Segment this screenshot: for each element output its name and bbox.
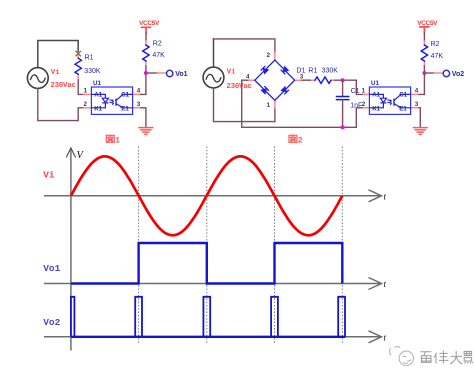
svg-text:47K: 47K: [431, 53, 444, 60]
photo arrows: [387, 100, 391, 105]
vertical axis V: [70, 148, 72, 351]
wire top rail to bridge pin2: [214, 39, 275, 52]
axis t2 (Vo1): [44, 278, 382, 290]
svg-text:Vo2: Vo2: [452, 71, 464, 78]
wire node to pin4: [141, 73, 146, 94]
Vo2 pulse 2: [203, 297, 210, 337]
axis t1 (Vi): [44, 190, 382, 202]
WAVEFORMS: [43, 147, 386, 351]
svg-text:R1: R1: [85, 54, 94, 61]
Vo2 pulse 1: [135, 297, 142, 337]
diode top-right: [281, 67, 288, 74]
wire R2 to node: [423, 66, 425, 73]
power bar symbol: [142, 27, 151, 33]
opto box: [369, 87, 410, 114]
svg-text:Vi: Vi: [51, 69, 61, 77]
svg-text:R1: R1: [308, 68, 317, 75]
LED diode: [380, 98, 386, 103]
wire R2 to node: [145, 66, 147, 73]
dashed gridline 2: [206, 147, 208, 345]
Vo2 baseline: [71, 336, 346, 338]
svg-text:Vo1: Vo1: [43, 263, 60, 274]
svg-text:4: 4: [415, 88, 419, 95]
LED anode path: [91, 94, 105, 98]
optocoupler U1 (circuit 2): [369, 80, 410, 114]
collector: [116, 94, 133, 100]
axis t3 (Vo2): [44, 331, 382, 343]
wire VCC to R2: [145, 33, 147, 41]
wire pin3 to R1: [302, 79, 312, 81]
pin stubs opto U1 left: [84, 94, 92, 107]
label 图2: [289, 135, 297, 142]
logo mark: [389, 347, 400, 356]
svg-text:C1: C1: [351, 88, 360, 95]
wire AC bottom to bridge pin1: [214, 88, 275, 122]
svg-text:2: 2: [267, 52, 271, 59]
wire node to pin4: [419, 73, 424, 94]
ground (circuit 2): [413, 128, 427, 135]
resistor R2 pin stubs: [423, 41, 425, 66]
transistor bar: [393, 99, 395, 106]
svg-text:230Vac: 230Vac: [226, 83, 252, 91]
AC source Vi (circuit 2): [203, 67, 224, 88]
svg-text:230Vac: 230Vac: [50, 82, 76, 90]
wire top loop gray: [38, 41, 78, 68]
resistor R1 stubs: [312, 79, 335, 81]
resistor R1: [75, 58, 81, 74]
wire VCC to R2: [423, 33, 425, 41]
LED cathode path: [369, 103, 383, 108]
WATERMARK logo: [389, 347, 413, 366]
node junction dot rail: [341, 125, 345, 129]
wire pin3 to ground: [141, 108, 146, 128]
svg-text:3: 3: [137, 101, 141, 108]
AC source Vi (circuit 1): [27, 68, 48, 89]
CIRCUIT1: [27, 41, 140, 121]
capacitor C1: [337, 97, 349, 100]
svg-text:VCC5V: VCC5V: [417, 20, 438, 27]
pin stubs opto U1 right: [411, 94, 419, 107]
diode bottom-left: [261, 87, 268, 94]
resistor R2: [421, 45, 427, 61]
resistor R2 pin stubs: [145, 41, 147, 66]
svg-text:A1: A1: [372, 92, 380, 99]
transistor bar: [115, 99, 117, 106]
svg-text:4: 4: [137, 88, 141, 95]
svg-text:Vo1: Vo1: [175, 71, 187, 78]
wire AC top stub gray: [213, 39, 215, 67]
svg-text:R2: R2: [153, 41, 162, 48]
wire node to Vo1: [146, 72, 157, 74]
optocoupler U1 (circuit 1): [91, 80, 132, 114]
resistor R1 (horizontal): [315, 77, 331, 83]
svg-text:Vi: Vi: [227, 69, 237, 77]
pin stubs opto U1 left: [364, 94, 370, 107]
emitter: [394, 104, 411, 108]
LED cathode path: [91, 103, 105, 108]
svg-text:3: 3: [415, 101, 419, 108]
svg-text:2: 2: [362, 101, 366, 108]
power bar symbol: [420, 27, 429, 33]
CIRCUIT2: [203, 39, 419, 129]
wire bottom loop maroon: [38, 89, 84, 121]
svg-text:E1: E1: [399, 105, 407, 112]
svg-text:1: 1: [267, 102, 271, 109]
wire node to C1: [342, 80, 344, 96]
emitter arrow: [120, 106, 123, 108]
svg-text:1: 1: [115, 137, 120, 146]
svg-text:U1: U1: [371, 80, 379, 87]
dashed gridline 4: [341, 147, 343, 345]
LED anode path: [369, 94, 383, 98]
node junction dot: [422, 71, 426, 75]
wire pin3 to ground: [419, 108, 420, 128]
Vi sine wave: [71, 156, 342, 235]
wire bridge pin4 down and right rail: [242, 80, 364, 127]
Vo2 pulse 4: [338, 297, 345, 337]
emitter: [116, 104, 133, 108]
collector: [394, 94, 411, 100]
wire R1 to pin1: [78, 80, 83, 94]
svg-text:R2: R2: [431, 41, 440, 48]
no-ERC cross: [76, 51, 81, 56]
bridge rectifier D1: [255, 60, 295, 100]
pin stubs opto U1 right: [133, 94, 141, 107]
vertical axis arrowhead: [66, 148, 75, 158]
svg-text:K1: K1: [94, 105, 102, 112]
svg-text:E1: E1: [121, 105, 129, 112]
watermark text 硬件大熊: [420, 351, 472, 364]
resistor R1 pin stubs: [77, 56, 79, 81]
label 图1: [106, 135, 114, 142]
svg-text:2: 2: [84, 101, 88, 108]
terminal Vo1: [167, 70, 173, 76]
dashed gridline 1: [138, 147, 140, 345]
bridge pin stubs: [248, 52, 303, 108]
svg-text:K1: K1: [372, 105, 380, 112]
svg-text:2: 2: [298, 137, 303, 146]
terminal Vo2: [443, 70, 449, 76]
Vo2 pulse 3: [271, 297, 278, 337]
dashed gridline 3: [274, 147, 276, 345]
resistor R2: [143, 45, 149, 61]
diode bottom-right: [281, 87, 288, 94]
svg-text:VCC5V: VCC5V: [139, 20, 160, 27]
svg-text:C1: C1: [399, 92, 407, 99]
node junction dot: [144, 71, 148, 75]
svg-text:C1: C1: [121, 92, 129, 99]
svg-text:330K: 330K: [84, 68, 101, 75]
svg-text:330K: 330K: [322, 68, 339, 75]
svg-text:D1: D1: [296, 68, 305, 75]
emitter arrow: [398, 106, 401, 108]
node junction dot: [341, 78, 345, 82]
photo arrows: [109, 100, 113, 105]
wire C1 to bottom rail: [342, 100, 344, 128]
LED diode: [102, 98, 108, 103]
opto box: [91, 87, 132, 114]
svg-text:Vo2: Vo2: [43, 317, 60, 328]
svg-text:Vi: Vi: [43, 170, 55, 181]
wire R1 to node: [335, 80, 364, 94]
Vo2 pulse 0: [71, 297, 75, 337]
svg-text:47K: 47K: [152, 52, 165, 59]
Vo1 square wave: [71, 243, 342, 284]
svg-text:U1: U1: [93, 80, 101, 87]
svg-text:1: 1: [362, 88, 366, 95]
svg-text:A1: A1: [94, 92, 102, 99]
diode top-left: [261, 66, 268, 73]
wire node to Vo2: [424, 72, 434, 74]
svg-text:1: 1: [84, 88, 88, 95]
ground (circuit 1): [139, 128, 153, 135]
